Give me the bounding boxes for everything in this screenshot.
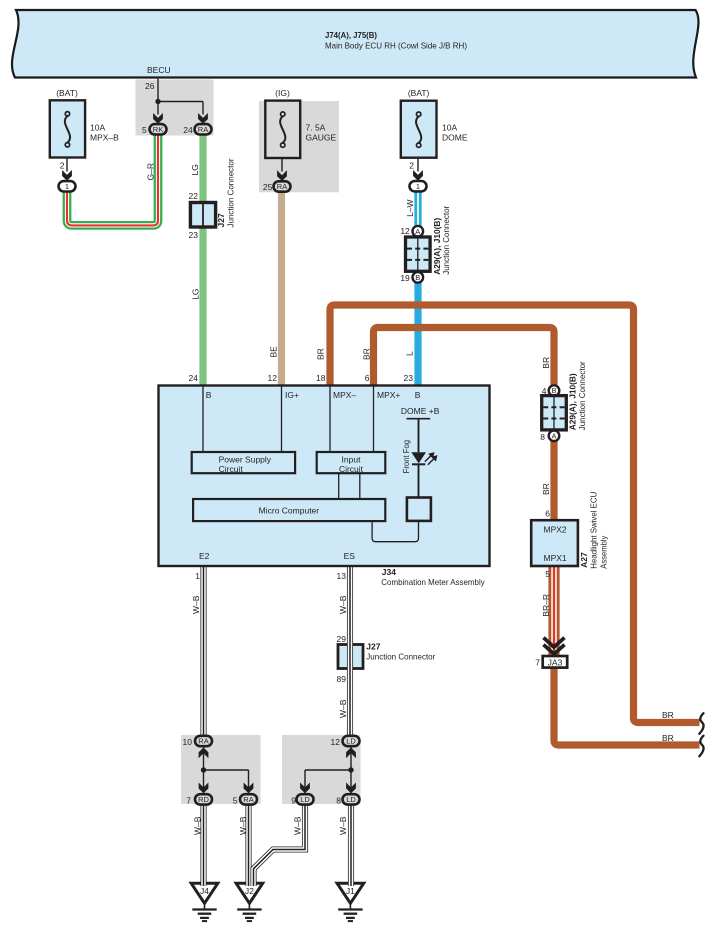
svg-text:W–B: W–B (338, 816, 348, 835)
svg-text:12: 12 (268, 373, 278, 383)
svg-text:BR: BR (541, 357, 551, 369)
svg-text:W–B: W–B (191, 595, 201, 614)
svg-text:23: 23 (404, 373, 414, 383)
svg-text:6: 6 (365, 373, 370, 383)
svg-text:Micro Computer: Micro Computer (259, 506, 320, 516)
svg-text:JA3: JA3 (548, 657, 563, 667)
svg-text:89: 89 (337, 674, 347, 684)
svg-text:J1: J1 (346, 886, 355, 896)
svg-text:RA: RA (198, 737, 208, 746)
svg-text:GAUGE: GAUGE (306, 133, 337, 143)
svg-text:B: B (551, 386, 556, 395)
svg-text:7: 7 (535, 657, 540, 667)
svg-text:24: 24 (183, 125, 193, 135)
svg-text:G–R: G–R (145, 163, 155, 180)
svg-text:J27: J27 (366, 642, 380, 652)
svg-text:24: 24 (189, 373, 199, 383)
svg-text:W–B: W–B (338, 595, 348, 614)
svg-text:B: B (206, 390, 212, 400)
svg-text:B: B (415, 273, 420, 282)
svg-text:26: 26 (145, 81, 155, 91)
svg-text:MPX1: MPX1 (544, 553, 567, 563)
svg-text:RA: RA (243, 795, 253, 804)
svg-text:10A: 10A (90, 123, 105, 133)
svg-text:RK: RK (153, 125, 163, 134)
svg-text:Headlight Swivel ECU: Headlight Swivel ECU (589, 492, 599, 569)
svg-text:1: 1 (416, 182, 420, 191)
svg-text:6: 6 (545, 509, 550, 519)
svg-text:2: 2 (409, 161, 414, 171)
svg-text:RD: RD (198, 795, 209, 804)
svg-text:7: 7 (186, 795, 191, 805)
svg-text:18: 18 (316, 373, 326, 383)
svg-text:Junction Connector: Junction Connector (226, 158, 236, 227)
svg-text:MPX2: MPX2 (544, 524, 567, 534)
svg-text:Junction Connector: Junction Connector (577, 361, 587, 430)
svg-text:MPX–B: MPX–B (90, 133, 119, 143)
svg-text:MPX+: MPX+ (377, 390, 400, 400)
svg-text:MPX–: MPX– (333, 390, 356, 400)
svg-text:5: 5 (233, 795, 238, 805)
svg-text:BR: BR (361, 348, 371, 360)
svg-text:10: 10 (183, 737, 193, 747)
svg-text:W–B: W–B (192, 816, 202, 835)
svg-text:Main Body ECU RH (Cowl Side J/: Main Body ECU RH (Cowl Side J/B RH) (325, 41, 467, 51)
svg-text:(BAT): (BAT) (408, 88, 430, 98)
svg-text:29: 29 (337, 634, 347, 644)
svg-text:B: B (415, 390, 421, 400)
svg-text:LD: LD (300, 795, 310, 804)
svg-text:J74(A), J75(B): J74(A), J75(B) (325, 30, 377, 40)
svg-text:2: 2 (60, 161, 65, 171)
svg-text:8: 8 (336, 795, 341, 805)
svg-text:A27: A27 (579, 552, 589, 568)
svg-text:Assembly: Assembly (598, 535, 608, 569)
svg-text:5: 5 (545, 569, 550, 579)
svg-text:ES: ES (344, 551, 356, 561)
svg-text:Front Fog: Front Fog (401, 440, 411, 474)
svg-text:E2: E2 (199, 551, 210, 561)
svg-text:Junction Connector: Junction Connector (441, 206, 451, 275)
svg-text:LD: LD (346, 737, 356, 746)
svg-text:Circuit: Circuit (219, 464, 244, 474)
svg-text:BR: BR (662, 710, 674, 720)
svg-text:BR: BR (541, 483, 551, 495)
svg-text:9: 9 (291, 795, 296, 805)
svg-text:5: 5 (142, 125, 147, 135)
svg-text:L: L (405, 351, 415, 356)
svg-text:12: 12 (331, 737, 341, 747)
svg-text:W–B: W–B (238, 816, 248, 835)
svg-text:J2: J2 (245, 886, 254, 896)
svg-text:25: 25 (263, 182, 273, 192)
svg-text:19: 19 (400, 273, 410, 283)
svg-text:1: 1 (195, 571, 200, 581)
svg-text:13: 13 (337, 571, 347, 581)
svg-text:(IG): (IG) (275, 88, 290, 98)
svg-text:7. 5A: 7. 5A (306, 123, 326, 133)
svg-text:LD: LD (346, 795, 356, 804)
svg-text:A: A (415, 227, 420, 236)
svg-text:J34: J34 (382, 567, 396, 577)
svg-text:W–B: W–B (292, 816, 302, 835)
svg-text:LG: LG (190, 164, 200, 175)
svg-text:LG: LG (191, 288, 201, 299)
svg-text:23: 23 (189, 230, 199, 240)
svg-text:W–B: W–B (338, 699, 348, 718)
svg-text:BECU: BECU (147, 65, 171, 75)
svg-text:RA: RA (198, 125, 208, 134)
svg-text:IG+: IG+ (285, 390, 299, 400)
svg-text:BR: BR (662, 733, 674, 743)
svg-text:Junction Connector: Junction Connector (366, 652, 435, 662)
svg-text:J4: J4 (200, 886, 209, 896)
svg-text:RA: RA (277, 182, 287, 191)
svg-text:10A: 10A (442, 123, 457, 133)
svg-text:DOME +B: DOME +B (401, 406, 440, 416)
svg-text:8: 8 (540, 432, 545, 442)
svg-text:DOME: DOME (442, 133, 468, 143)
svg-text:A29(A), J10(B): A29(A), J10(B) (568, 373, 578, 430)
svg-text:BE: BE (268, 346, 278, 358)
svg-text:1: 1 (65, 182, 69, 191)
svg-text:BR–R: BR–R (541, 594, 551, 617)
svg-text:(BAT): (BAT) (56, 88, 78, 98)
svg-text:A: A (551, 431, 556, 440)
svg-text:Combination Meter Assembly: Combination Meter Assembly (381, 577, 485, 587)
svg-text:L–W: L–W (405, 199, 415, 216)
svg-text:22: 22 (189, 191, 199, 201)
svg-text:12: 12 (400, 226, 410, 236)
svg-text:4: 4 (542, 386, 547, 396)
svg-text:Circuit: Circuit (339, 464, 364, 474)
svg-text:BR: BR (315, 348, 325, 360)
